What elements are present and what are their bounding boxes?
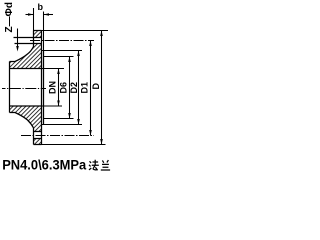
svg-text:D: D xyxy=(91,83,101,90)
svg-text:D6: D6 xyxy=(59,82,69,94)
raised face front line xyxy=(43,51,45,125)
bolt hole lower edge top xyxy=(34,131,42,133)
arrow b left (points right) xyxy=(28,13,34,16)
D2 extension lower xyxy=(42,124,83,126)
arrow DN top xyxy=(57,69,60,75)
b left extension xyxy=(33,8,35,31)
arrow D1 bottom xyxy=(89,130,92,136)
svg-text:DN: DN xyxy=(48,81,58,94)
flange lower half section body (hatched) xyxy=(10,106,42,145)
hub left end face xyxy=(9,62,11,113)
D1 dimension line xyxy=(90,41,92,136)
flange upper half section body (hatched) xyxy=(10,31,42,69)
arrow DN bottom xyxy=(57,101,60,107)
bolt hole upper edge bottom xyxy=(15,43,42,45)
DN extension lower xyxy=(42,105,63,107)
plate left face + hub taper upper xyxy=(10,31,34,62)
bolt hole lower void xyxy=(34,132,41,138)
DN extension upper (bore) xyxy=(42,68,65,70)
arrow D2 bottom xyxy=(77,119,80,125)
plate bottom edge xyxy=(34,144,42,146)
arrow D6 top xyxy=(68,57,71,63)
svg-text:D1: D1 xyxy=(79,82,89,94)
arrow Z-phi-d (points down) xyxy=(16,46,19,52)
b right extension xyxy=(43,12,45,51)
D extension lower xyxy=(42,144,106,146)
arrow D bottom xyxy=(100,139,103,145)
bolt hole upper void xyxy=(34,38,41,43)
plate left face + hub taper lower xyxy=(10,113,34,145)
bore line lower xyxy=(10,105,42,107)
D6 dimension line xyxy=(69,57,71,119)
bolt hole lower edge bottom xyxy=(34,138,42,140)
plate top edge xyxy=(34,30,42,32)
arrow D6 bottom xyxy=(68,113,71,119)
plate right face xyxy=(41,31,43,145)
bolt hole lower center line / D1 extension xyxy=(21,135,94,137)
svg-text:D2: D2 xyxy=(69,82,79,94)
svg-text:Z—Φd: Z—Φd xyxy=(4,2,15,32)
bore line upper xyxy=(10,68,42,70)
bolt hole upper edge top xyxy=(14,37,42,39)
b dimension line right part xyxy=(44,14,54,16)
arrow b right (points left) xyxy=(44,13,50,16)
arrow D top xyxy=(100,31,103,37)
b dimension line left part xyxy=(26,14,34,16)
DN dimension line xyxy=(58,69,60,107)
main axis center line xyxy=(2,88,46,90)
D extension upper xyxy=(42,30,109,32)
arrow D2 top xyxy=(77,51,80,57)
D dimension line xyxy=(101,31,103,145)
D6 extension upper xyxy=(44,56,74,58)
Z-phi-d leader line xyxy=(17,29,19,48)
D2 extension upper xyxy=(42,50,83,52)
arrow D1 top xyxy=(89,41,92,47)
caption CJK glyph FA (hand-drawn) xyxy=(89,160,99,171)
svg-text:PN4.0\6.3MPa: PN4.0\6.3MPa xyxy=(2,158,86,174)
D6 extension lower xyxy=(44,118,74,120)
svg-text:b: b xyxy=(38,2,44,12)
caption CJK glyph LAN (hand-drawn) xyxy=(101,160,110,170)
D2 dimension line xyxy=(78,51,80,125)
bolt hole upper center line / D1 extension xyxy=(30,40,94,42)
